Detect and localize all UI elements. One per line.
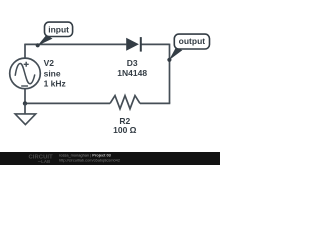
wire: junction to ground symbol — [24, 103, 26, 114]
wire: V2 negative terminal down to ground junction — [24, 89, 26, 104]
footer CircuitLab logo — [29, 154, 54, 164]
voltage source V2 — [10, 58, 41, 89]
svg-text:sine: sine — [44, 68, 61, 78]
wire: diode cathode to top-right corner — [141, 43, 170, 45]
ground — [15, 114, 36, 125]
svg-text:input: input — [48, 25, 69, 35]
node output flag — [167, 34, 209, 62]
svg-text:∼LAB: ∼LAB — [38, 159, 51, 164]
value sine — [44, 68, 61, 78]
value 1 kHz — [44, 78, 66, 88]
wire: resistor right lead to right corner — [140, 102, 170, 104]
wire: V2 positive terminal up to top net — [24, 44, 26, 59]
svg-text:1N4148: 1N4148 — [117, 68, 147, 78]
value 100 Ω — [113, 125, 137, 135]
label V2 — [44, 58, 55, 68]
wire top net: V2 top terminal to diode anode — [25, 43, 126, 45]
wire: bottom net junction to resistor left lead — [25, 102, 110, 104]
footer watermark bar — [0, 152, 220, 165]
svg-text:output: output — [179, 36, 206, 46]
svg-text:V2: V2 — [44, 58, 55, 68]
footer attribution text — [59, 152, 120, 162]
resistor R2 — [110, 96, 140, 109]
node input flag — [36, 22, 73, 47]
svg-text:http://circuitlab.com/c6abq8cs: http://circuitlab.com/c6abq8csm042 — [59, 158, 120, 163]
label D3 — [127, 58, 138, 68]
value 1N4148 — [117, 68, 147, 78]
svg-text:D3: D3 — [127, 58, 138, 68]
label R2 — [119, 116, 130, 126]
svg-text:1 kHz: 1 kHz — [44, 78, 66, 88]
diode D3 — [126, 37, 141, 52]
junction ground node dot — [23, 101, 27, 105]
svg-text:rossa_monaghan | Project 03: rossa_monaghan | Project 03 — [59, 152, 112, 157]
wire: right vertical from corner down to resistor level — [169, 44, 171, 104]
svg-text:100 Ω: 100 Ω — [113, 125, 137, 135]
